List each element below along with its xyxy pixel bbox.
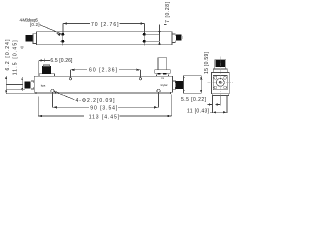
svg-text:60 [2.36]: 60 [2.36] [89,68,118,74]
svg-text:tm: tm [161,76,164,80]
dim 7 vertical line [159,25,161,42]
view 3 top port [215,60,226,69]
dim 11 [210,111,227,113]
port 2 square [158,58,167,70]
view 3 corner screws [214,76,217,79]
svg-text:90 [3.54]: 90 [3.54] [90,106,118,112]
svg-text:15 [0.59]: 15 [0.59] [204,51,210,74]
dim 60 [70,70,140,78]
view 2 right connector nut [176,82,183,89]
dim 70 line [63,24,144,34]
left dim 6.2 vertical line [21,77,23,91]
svg-text:6.5 [0.26]: 6.5 [0.26] [50,58,73,64]
port 2 neck [157,74,169,76]
dim 113 [38,95,171,117]
svg-text:5.5 [0.22]: 5.5 [0.22] [181,97,207,103]
dim 6.5 [39,59,50,74]
view 1 left connector nut [26,35,32,41]
port 1 flange [39,74,54,77]
dim 7 extension lines [147,34,160,41]
phantom mating rect [184,76,202,94]
dim 15 vertical [200,76,202,94]
svg-text:kpa: kpa [41,83,46,87]
top surface hole circles [69,78,71,80]
view 3 center circle [216,79,224,87]
view 3 body square [212,73,230,94]
view 1 hole left top [60,33,65,35]
view 1 top view body [37,32,173,45]
svg-text:11 [0.43]: 11 [0.43] [187,109,210,115]
port 1 nut black [42,66,50,74]
bottom hole circles [51,89,54,92]
view 3 collar [213,69,227,73]
svg-text:70 [2.76]: 70 [2.76] [91,22,119,28]
svg-text:4-Φ2.2[0.09]: 4-Φ2.2[0.09] [76,98,116,104]
port 1 cap [43,65,50,67]
port 2 flange [155,70,171,74]
view 2 right connector neck [173,81,176,89]
svg-text:113 [4.45]: 113 [4.45] [89,114,120,120]
dim 5.5 [213,95,228,113]
svg-text:11.5 [0.45]: 11.5 [0.45] [13,40,19,76]
svg-text:7 [0.28]: 7 [0.28] [165,1,171,23]
view 1 hole left bottom [60,40,65,42]
view 2 base lip [36,92,171,94]
view 2 front body [34,76,172,92]
view 2 left connector neck [31,81,34,89]
view 1 right connector neck tabs [172,34,175,43]
leader phi2.2 [54,91,75,100]
view 1 hole right top [142,33,147,35]
view 1 hole column right centerline [143,31,145,46]
view 3 centerlines [219,57,221,99]
view 1 right connector nut [177,35,182,41]
view 3 flange square [213,76,227,90]
svg-text:6.2 [0.24]: 6.2 [0.24] [5,39,11,71]
left dim 11.5 vertical line [5,76,7,94]
small stray mark under view1 left connector [20,47,23,49]
left dims extension lines [6,85,36,94]
view 1 left connector collar [33,34,37,44]
leader 4-M3 [40,25,61,34]
dim 90 [53,93,159,108]
view 1 hole column left centerline [62,31,64,46]
view 3 base lip [212,94,228,96]
svg-text:[0.2]: [0.2] [30,22,40,27]
view 1 hole right bottom [142,40,147,42]
svg-text:krytar: krytar [161,83,168,87]
view 2 left connector nut [25,82,30,88]
